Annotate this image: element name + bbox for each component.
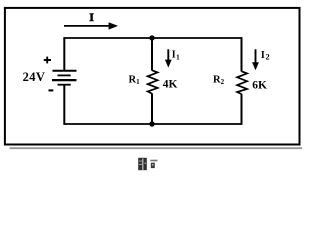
resistor R2 [237, 71, 247, 94]
wire R1 branch lower [151, 93, 153, 124]
wire top [64, 37, 243, 39]
svg-text:I: I [89, 10, 94, 24]
caption figure number [138, 158, 157, 170]
battery plus sign [44, 57, 51, 64]
wire bottom [64, 123, 243, 125]
wire left lower [63, 85, 65, 125]
wire left upper [63, 37, 65, 70]
node A top junction [149, 35, 154, 40]
svg-text:24V: 24V [23, 70, 46, 84]
svg-text:6K: 6K [252, 79, 267, 91]
current arrow I [64, 22, 118, 29]
wire R1 branch upper [151, 38, 153, 71]
wire R2 branch lower [241, 94, 243, 125]
current arrow I1 [165, 49, 172, 67]
node B bottom junction [149, 121, 154, 126]
current arrow I2 [252, 49, 259, 70]
resistor R1 [148, 70, 158, 93]
svg-text:I2: I2 [261, 50, 270, 62]
battery minus sign [49, 89, 54, 91]
wire R2 branch upper [241, 37, 243, 71]
battery 24V [52, 71, 77, 85]
svg-text:4K: 4K [163, 78, 178, 90]
